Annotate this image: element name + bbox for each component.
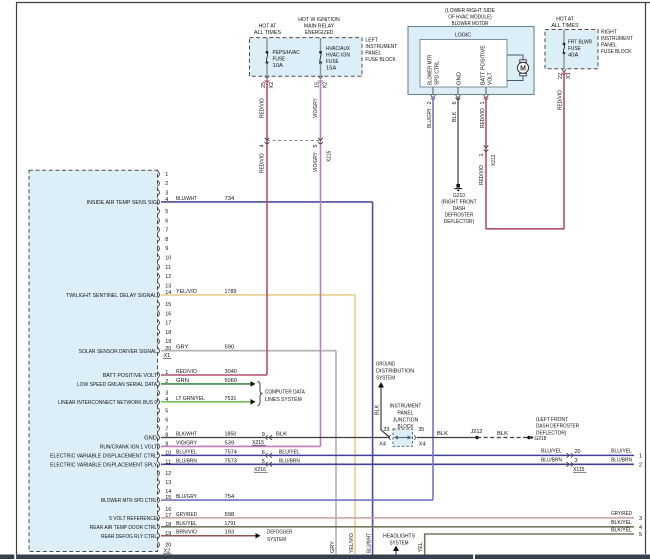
svg-text:REAR DEFOG RLY CTRL: REAR DEFOG RLY CTRL [101,534,158,540]
svg-text:BLU/WHT: BLU/WHT [366,533,372,553]
svg-text:BLU/WHT: BLU/WHT [176,196,197,202]
wire GRY/RED 598 from X2-17 to right edge pin 3 [161,517,634,519]
svg-text:MAIN RELAY: MAIN RELAY [304,24,334,30]
svg-text:GRY: GRY [176,345,189,351]
svg-text:J212: J212 [471,429,483,435]
svg-text:2: 2 [165,181,168,187]
svg-text:5: 5 [639,532,642,538]
svg-text:HOT W IGNITION: HOT W IGNITION [298,17,340,23]
connector X1 pin bumps and numbers [158,171,160,177]
svg-text:GRN: GRN [176,378,189,384]
svg-text:15: 15 [165,302,171,308]
svg-text:33: 33 [383,427,389,433]
motor M1 leads [507,55,523,60]
wire fuse F2 to box edge [320,63,322,76]
svg-text:5: 5 [313,144,319,147]
svg-text:3: 3 [165,391,168,397]
svg-text:193: 193 [225,530,235,536]
svg-text:BLK/WHT: BLK/WHT [176,432,197,438]
svg-text:LOW SPEED GMLAN SERIAL DATA: LOW SPEED GMLAN SERIAL DATA [77,382,157,388]
svg-text:FUSE: FUSE [568,46,581,52]
svg-text:SOLAR SENSOR DRIVER SIGNAL: SOLAR SENSOR DRIVER SIGNAL [79,349,158,355]
fuse F1 PEPS/HVAC FUSE 10A feed wire [266,38,268,52]
svg-text:PANEL: PANEL [398,411,415,417]
svg-text:BATT POSITIVE VOLT: BATT POSITIVE VOLT [103,373,158,379]
pin 15 X2 exit arrow (fuse F2) [318,76,323,79]
svg-text:BLU/YEL: BLU/YEL [611,449,633,455]
svg-text:1: 1 [480,101,486,104]
svg-text:20: 20 [165,542,171,548]
wire BLK to instrument panel junction block [381,388,390,438]
svg-text:BLU/GRY: BLU/GRY [176,494,197,500]
motor M1 symbol [517,62,528,73]
svg-text:RED/VIO: RED/VIO [260,153,266,173]
svg-text:BRN/VIO: BRN/VIO [176,530,197,536]
svg-text:LOGIC: LOGIC [455,32,471,38]
svg-text:RIGHT: RIGHT [601,30,617,36]
svg-text:X215: X215 [327,151,333,162]
svg-text:FUSE BLOCK: FUSE BLOCK [601,49,631,55]
svg-text:11: 11 [165,265,171,271]
svg-text:X2: X2 [322,82,328,89]
wire RED/VIO from blower pin 1 to fuse F3 [486,72,564,229]
wire GRN 5060 from X2-2 to computer data lines [161,383,251,385]
fuse F3 FRT BLWR FUSE 40A [563,43,566,46]
svg-text:VOLT: VOLT [488,72,494,85]
svg-text:JUNCTION: JUNCTION [393,417,418,423]
wire BLK/YEL 1791 from X2-18 to right edge pin 4 [161,526,634,528]
svg-text:1: 1 [165,172,168,178]
svg-text:16: 16 [165,507,171,513]
svg-text:HOT AT: HOT AT [556,17,574,23]
svg-text:BLU/YEL: BLU/YEL [541,449,563,455]
svg-text:590: 590 [225,345,235,351]
svg-text:7: 7 [165,228,168,234]
svg-text:7531: 7531 [225,396,237,402]
svg-text:X212: X212 [491,155,497,166]
svg-text:BLK: BLK [437,431,448,437]
pin 22 X1 exit arrow (fuse F3) [562,69,567,72]
svg-text:539: 539 [225,440,235,446]
bottom component box edge [0,555,650,559]
svg-text:35: 35 [418,427,424,433]
wire RED/VIO vertical from fuse F1 [266,80,268,376]
svg-text:1: 1 [479,153,485,156]
svg-text:PANEL: PANEL [601,43,618,49]
logic block U1 inside blower motor [420,40,507,88]
junction block internal bus bar [396,437,411,439]
arrow to headlights system [393,546,399,552]
svg-text:SYSTEM: SYSTEM [376,376,395,382]
wire GRY vertical to bottom [335,351,337,555]
svg-text:1: 1 [639,454,642,460]
svg-text:19: 19 [165,339,171,345]
svg-text:25: 25 [261,82,267,88]
svg-text:GND: GND [457,72,463,85]
svg-text:1791: 1791 [225,521,236,527]
wire YEL/VIO 1789 from X1-14 [161,294,355,296]
svg-text:GRY/RED: GRY/RED [611,511,632,517]
wire GRY 590 from X1-20 [161,350,336,352]
inline connector X215 pin 5 on VIO/GRY [318,138,323,141]
svg-text:BLU/BRN: BLU/BRN [541,458,562,464]
svg-text:6: 6 [452,101,458,104]
svg-text:FRT BLWR: FRT BLWR [568,40,592,46]
svg-text:14: 14 [165,489,171,495]
svg-text:GND: GND [144,436,157,442]
svg-text:2: 2 [427,101,433,104]
connector X215 dashed link line [267,140,321,142]
svg-text:BLK: BLK [497,431,508,437]
svg-text:ELECTRIC VARIABLE DISPLACEMENT: ELECTRIC VARIABLE DISPLACEMENT CTRL [50,453,158,459]
svg-text:X2: X2 [269,82,275,89]
svg-text:BLOWER MOTOR: BLOWER MOTOR [452,21,489,27]
svg-text:15: 15 [315,82,321,88]
fuse F3 FRT BLWR FUSE 40A feed wire [563,30,565,44]
svg-text:X4: X4 [419,442,426,448]
wire BLU/WHT 734 vertical to bottom [372,202,374,555]
svg-text:5 VOLT REFERENCE: 5 VOLT REFERENCE [109,516,157,522]
arrow to ground distribution system [378,382,384,388]
computer data lines system brace [258,382,263,406]
fuse F2 HVAC/AUX HVAC IGN FUSE 15A feed wire [320,38,322,52]
fuse F1 PEPS/HVAC FUSE 10A [266,51,269,54]
svg-text:12: 12 [165,471,171,477]
wire YEL/VIO vertical to bottom [354,295,356,555]
svg-text:GRY: GRY [330,541,336,553]
svg-text:10A: 10A [273,63,283,69]
svg-text:BATT POSITIVE: BATT POSITIVE [481,45,487,85]
svg-text:754: 754 [225,494,235,500]
svg-text:3: 3 [575,458,578,464]
svg-text:6: 6 [165,218,168,224]
svg-text:ALL TIMES: ALL TIMES [254,30,281,36]
connector X2 pin bumps and numbers [158,372,160,378]
svg-text:BLU/BRN: BLU/BRN [611,458,632,464]
svg-text:DASH DEFROSTER: DASH DEFROSTER [536,424,579,430]
svg-text:734: 734 [225,196,235,202]
svg-text:BLU/YEL: BLU/YEL [279,449,301,455]
blower motor pin 1 exit arrow [484,95,489,98]
svg-text:12: 12 [165,274,171,280]
svg-text:3040: 3040 [225,369,237,375]
svg-text:BLK: BLK [276,432,287,438]
svg-text:13: 13 [165,283,171,289]
wire BLU/YEL 7574 from X2-10 to right edge pin 1 [161,454,634,456]
svg-text:BLK/YEL: BLK/YEL [176,521,198,527]
svg-text:LEFT: LEFT [365,38,378,44]
svg-text:SYSTEM: SYSTEM [267,537,286,543]
ground G218 symbol [527,436,531,440]
svg-text:22: 22 [558,73,564,79]
svg-text:X4: X4 [379,442,386,448]
svg-text:G218: G218 [535,436,547,442]
blower motor internal pin wires [432,87,434,95]
svg-text:3: 3 [165,190,168,196]
svg-text:5: 5 [165,409,168,415]
svg-text:VIO/GRY: VIO/GRY [313,98,319,118]
svg-text:(RIGHT FRONT: (RIGHT FRONT [441,200,477,206]
svg-text:BLK/YEL: BLK/YEL [611,520,633,526]
wire BLK/WHT 1850 from X2-8 (ground) [161,437,390,439]
inline connector X215 pin 4 on RED/VIO [265,138,270,141]
svg-text:5060: 5060 [225,378,237,384]
svg-text:RED/VIO: RED/VIO [558,90,564,110]
svg-text:RED/VIO: RED/VIO [479,165,485,185]
svg-text:1850: 1850 [225,432,237,438]
svg-text:BLK/YEL: BLK/YEL [611,527,633,533]
svg-text:FUSE BLOCK: FUSE BLOCK [365,57,395,63]
svg-text:9: 9 [262,432,265,438]
svg-text:FUSE: FUSE [326,59,339,65]
svg-text:5: 5 [262,459,265,465]
svg-text:DISTRIBUTION: DISTRIBUTION [376,369,414,375]
svg-text:BLK: BLK [452,111,458,122]
wire VIO/GRY 539 from X2-9 to fuse F2 [161,445,321,447]
svg-text:LT GRN/YEL: LT GRN/YEL [176,396,206,402]
svg-text:15A: 15A [326,66,336,72]
svg-text:BLU/BRN: BLU/BRN [279,458,300,464]
svg-text:REAR AIR TEMP DOOR CTRL: REAR AIR TEMP DOOR CTRL [90,525,158,531]
svg-text:BLOWER MTR: BLOWER MTR [428,55,434,85]
fuse F2 HVAC/AUX HVAC IGN FUSE 15A [319,51,322,54]
svg-text:GRY/RED: GRY/RED [176,512,197,518]
svg-text:40A: 40A [568,53,578,59]
svg-text:PANEL: PANEL [365,51,382,57]
wire to headlights system [395,551,397,555]
svg-text:DEFOGGER: DEFOGGER [267,530,292,536]
right instrument panel fuse block box [545,30,598,69]
svg-text:INSIDE AIR TEMP SENS SIG: INSIDE AIR TEMP SENS SIG [87,200,158,206]
HVAC control module box (left) [29,170,158,551]
svg-text:YEL: YEL [418,542,424,552]
wire VIO/GRY vertical from fuse F2 [320,80,322,447]
svg-text:8: 8 [165,237,168,243]
svg-text:GROUND: GROUND [376,362,395,368]
svg-text:X1: X1 [566,72,572,79]
svg-text:LINES SYSTEM: LINES SYSTEM [265,397,302,403]
wire BRN/VIO 193 from X2-19 to defogger system [161,535,256,537]
svg-text:SYSTEM: SYSTEM [389,541,408,547]
wire BLU/GRY vertical to blower pin 2 [432,98,434,501]
svg-text:RED/VIO: RED/VIO [176,369,197,375]
svg-text:10: 10 [165,256,171,262]
blower motor pin 2 exit arrow [431,95,436,98]
wire fuse F1 to box edge [266,63,268,76]
svg-text:ELECTRIC VARIABLE DISPLACEMENT: ELECTRIC VARIABLE DISPLACEMENT SPLY [50,462,157,468]
svg-text:DEFLECTOR): DEFLECTOR) [536,430,566,436]
svg-text:INSTRUMENT: INSTRUMENT [365,44,397,50]
svg-text:13: 13 [165,480,171,486]
wire fuse F3 to box edge [563,53,565,68]
svg-text:RED/VIO: RED/VIO [260,98,266,118]
splice J212 [475,436,478,439]
svg-text:FUSE: FUSE [273,57,286,63]
svg-text:9: 9 [165,246,168,252]
svg-text:HEADLIGHTS: HEADLIGHTS [383,534,415,540]
svg-text:2: 2 [639,463,642,469]
svg-text:5: 5 [165,209,168,215]
svg-text:6: 6 [165,417,168,423]
svg-text:ALL TIMES: ALL TIMES [551,23,578,29]
left instrument panel fuse block box [250,38,363,77]
svg-text:BLK: BLK [375,404,381,415]
svg-text:HOT AT: HOT AT [259,24,277,30]
svg-text:BLU/BRN: BLU/BRN [176,458,197,464]
wire BLK/YEL to right edge pin 5 (YEL riser) [425,534,634,555]
svg-text:VIO/GRY: VIO/GRY [313,152,319,172]
pin 25 X2 exit arrow (fuse F1) [265,76,270,79]
blower motor module box (LOWER RIGHT SIDE OF HVAC MODULE) [408,27,534,95]
inline connector X212 pin 1 on RED/VIO [484,145,489,148]
wire BLU/GRY 754 from X2-15 to blower motor pin 2 [161,499,433,501]
svg-text:TWILIGHT SENTINEL DELAY SIGNAL: TWILIGHT SENTINEL DELAY SIGNAL [66,293,158,299]
svg-text:VIO/GRY: VIO/GRY [176,440,197,446]
svg-text:INSTRUMENT: INSTRUMENT [390,404,422,410]
svg-text:7574: 7574 [225,449,238,455]
svg-text:7573: 7573 [225,458,237,464]
svg-text:HVAC IGN: HVAC IGN [326,53,350,59]
wire BLU/BRN 7573 from X2-11 to right edge pin 2 [161,463,634,465]
svg-text:16: 16 [165,311,171,317]
svg-text:1789: 1789 [225,289,237,295]
svg-text:(LOWER RIGHT SIDE: (LOWER RIGHT SIDE [445,8,495,14]
svg-text:18: 18 [165,330,171,336]
svg-text:PEPS/HVAC: PEPS/HVAC [273,50,300,56]
svg-text:LINEAR INTERCONNECT NETWORK BU: LINEAR INTERCONNECT NETWORK BUS 9 [58,400,157,406]
svg-text:6: 6 [262,450,265,456]
svg-text:20: 20 [575,449,581,455]
svg-text:DEFROSTER: DEFROSTER [445,213,474,219]
svg-text:RUN/CRANK IGN 1 VOLT: RUN/CRANK IGN 1 VOLT [100,445,158,451]
svg-text:COMPUTER DATA: COMPUTER DATA [265,390,305,396]
ground G210 symbol [456,184,460,188]
svg-text:HVAC/AUX: HVAC/AUX [326,46,350,52]
wire RED/VIO label at fuse F3 [562,73,567,75]
svg-text:M: M [520,65,526,72]
svg-text:(LEFT FRONT: (LEFT FRONT [536,417,568,423]
svg-text:BLOWER MTR SPD CTRL: BLOWER MTR SPD CTRL [101,498,158,504]
svg-text:4: 4 [639,525,642,531]
svg-text:BLU/GRY: BLU/GRY [427,108,433,128]
svg-text:INSTRUMENT: INSTRUMENT [601,36,633,42]
wire RED/VIO 3040 from X2-1 to fuse F1 [161,374,267,376]
wire BLK dashed from J212 to G218 [477,437,528,439]
svg-text:598: 598 [225,512,235,518]
wire BLK from blower pin 6 to ground G210 [457,98,459,185]
svg-text:DASH: DASH [453,206,466,212]
wire BLU/WHT 734 from X1-4 [161,201,373,203]
svg-text:G210: G210 [453,193,465,199]
svg-text:ENERGIZED: ENERGIZED [305,30,334,36]
svg-text:YEL/VIO: YEL/VIO [176,289,197,295]
wire LT GRN/YEL 7531 from X2-4 [161,401,251,403]
svg-text:4: 4 [260,144,266,147]
svg-text:3: 3 [639,516,642,522]
svg-text:BLU/YEL: BLU/YEL [176,449,198,455]
instrument panel junction block box [393,429,413,446]
svg-text:RED/VIO: RED/VIO [480,108,486,128]
svg-text:YEL/VIO: YEL/VIO [349,533,355,553]
svg-text:SPD CTRL: SPD CTRL [435,60,441,85]
svg-text:17: 17 [165,321,171,327]
blower motor pin 6 exit arrow [456,95,461,98]
wire BLK from junction block to J212 [417,437,478,439]
svg-text:OF HVAC MODULE): OF HVAC MODULE) [448,15,491,21]
svg-text:7: 7 [165,426,168,432]
svg-text:DEFLECTOR): DEFLECTOR) [444,219,474,225]
